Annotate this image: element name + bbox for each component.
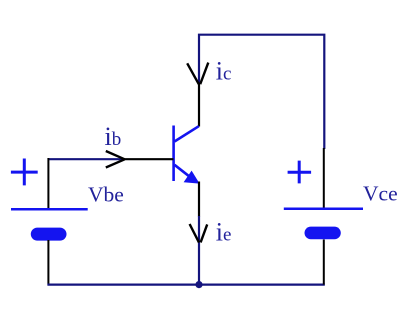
wire top rail (collector to Vce, navy)	[199, 35, 324, 149]
plus sign of Vce source	[288, 161, 312, 184]
junction node	[195, 281, 202, 288]
battery Vce bottom plate	[305, 227, 341, 240]
current arrow ic	[187, 63, 208, 85]
current arrow ie	[190, 224, 208, 243]
wire emitter vertical upper (black)	[198, 182, 200, 217]
svg-text:Vbe: Vbe	[88, 182, 124, 206]
wire right vertical lower (black, to Vce top plate)	[323, 148, 325, 209]
battery Vce top plate	[284, 208, 363, 211]
wire bottom rail (navy)	[47, 284, 324, 286]
transistor emitter arrowhead	[184, 171, 200, 184]
battery Vbe bottom plate	[31, 228, 67, 241]
wire collector vertical (black)	[198, 83, 200, 127]
wire emitter vertical lower (navy)	[198, 216, 200, 285]
wire left vertical lower (black)	[47, 240, 49, 285]
svg-text:Vce: Vce	[363, 181, 398, 205]
wire base right segment (black)	[125, 158, 174, 160]
plus sign of Vbe source	[11, 159, 38, 186]
wire right vertical bottom (black)	[323, 240, 325, 285]
wire base left segment (navy)	[48, 158, 124, 160]
wire left vertical upper (black)	[47, 158, 49, 209]
battery Vbe top plate	[11, 208, 88, 211]
transistor Q1 (NPN, blue)	[174, 126, 199, 182]
current arrow ib	[106, 151, 125, 168]
